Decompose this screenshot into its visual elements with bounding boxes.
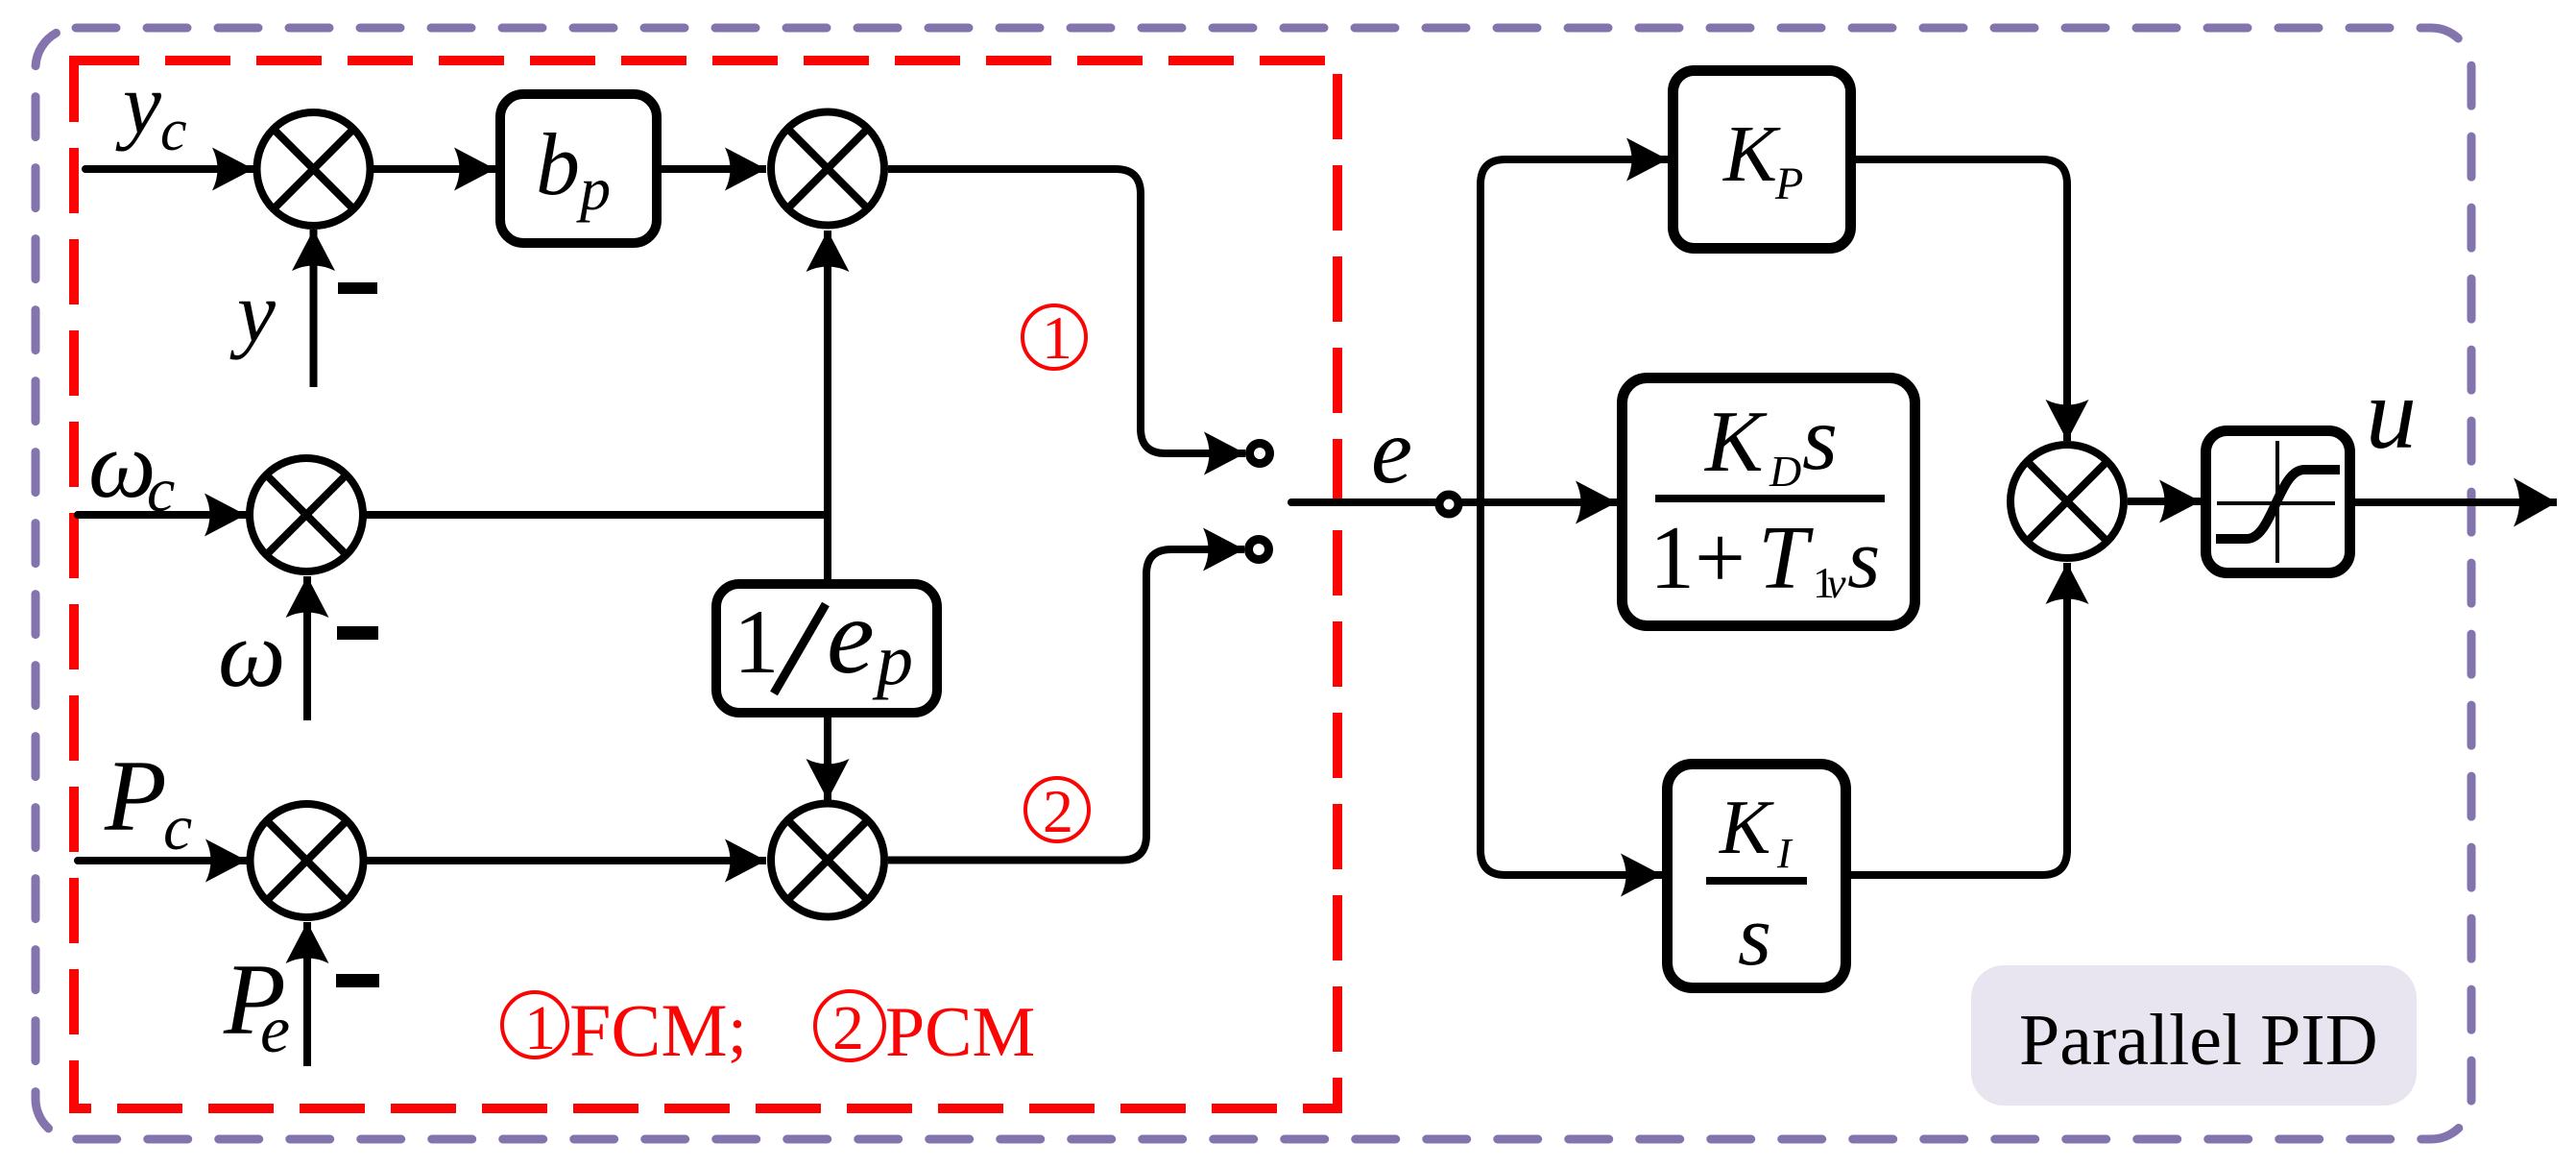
svg-text:K: K — [1703, 393, 1768, 490]
switch common wire to e node and KD — [1291, 498, 1617, 506]
Pe feedback arrow — [303, 922, 311, 1066]
w feedback arrow — [303, 576, 311, 720]
saturation curve — [2216, 470, 2340, 539]
summing junction S6 — [2010, 445, 2124, 558]
svg-text:PCM: PCM — [885, 993, 1035, 1072]
wire S2 to junction — [363, 511, 828, 519]
fraction bar KD — [1655, 495, 1885, 502]
svg-text:s: s — [1802, 387, 1838, 489]
contact circle 2 — [1249, 540, 1269, 560]
saturation axes — [2275, 441, 2279, 563]
wire yc input — [85, 165, 253, 173]
wire S3 to S5 — [364, 857, 767, 864]
y feedback arrow — [310, 230, 318, 387]
svg-text:1: 1 — [734, 591, 780, 693]
svg-text:;: ; — [728, 991, 747, 1068]
summing junction S4 — [771, 112, 884, 226]
svg-text:e: e — [1371, 400, 1412, 502]
svg-text:I: I — [1776, 830, 1794, 877]
svg-text:1: 1 — [524, 993, 556, 1063]
svg-text:T: T — [1758, 508, 1814, 608]
output wire u — [2355, 498, 2557, 506]
svg-text:1+: 1+ — [1649, 508, 1745, 608]
wire S6 to saturation — [2128, 498, 2201, 505]
minus sign S2 — [337, 626, 378, 640]
wire S4 to contact 1 — [888, 169, 1245, 453]
svg-text:y: y — [115, 57, 161, 152]
svg-text:ω: ω — [218, 600, 286, 707]
wire 1/ep to S5 — [824, 717, 831, 800]
wire KI to S6 — [1851, 563, 2067, 875]
block KP — [1673, 71, 1851, 249]
summing junction S5 — [771, 804, 884, 917]
svg-text:1: 1 — [1042, 304, 1072, 372]
block 1/ep — [716, 584, 937, 713]
svg-text:FCM: FCM — [569, 988, 728, 1072]
minus sign S1 — [338, 282, 377, 294]
node circle e — [1439, 495, 1458, 514]
saturation block — [2206, 431, 2350, 573]
summing junction S3 — [251, 804, 364, 917]
fraction bar KI — [1706, 877, 1807, 885]
svg-text:y: y — [229, 265, 276, 360]
svg-text:P: P — [1774, 158, 1803, 209]
wire S5 to contact 2 — [888, 549, 1244, 861]
wire KP to S6 — [1856, 159, 2067, 441]
wire S1 to bp — [371, 165, 496, 173]
svg-text:s: s — [1738, 888, 1771, 984]
wire Pc input — [78, 857, 247, 864]
svg-text:2: 2 — [832, 993, 864, 1063]
svg-text:K: K — [1719, 786, 1774, 870]
Parallel PID label box — [1971, 965, 2417, 1106]
label circled 2 — [1025, 778, 1089, 841]
svg-text:e: e — [827, 577, 875, 696]
svg-text:c: c — [147, 455, 175, 525]
block bp — [500, 94, 657, 243]
svg-text:2: 2 — [1043, 777, 1073, 845]
wire wc input — [78, 511, 246, 519]
block KD — [1623, 378, 1915, 626]
svg-text:c: c — [163, 790, 192, 863]
branch vertical up to KP — [1481, 159, 1668, 502]
red dashed border (FCM/PCM region) — [74, 61, 1337, 1108]
svg-text:D: D — [1769, 447, 1801, 496]
contact circle 1 — [1250, 444, 1270, 464]
svg-text:s: s — [1847, 513, 1880, 606]
svg-text:e: e — [260, 993, 290, 1067]
svg-text:K: K — [1722, 109, 1781, 199]
svg-text:u: u — [2366, 357, 2417, 470]
wire bp to S4 — [662, 165, 766, 173]
minus sign S3 — [336, 974, 379, 987]
svg-text:Parallel PID: Parallel PID — [2019, 1000, 2378, 1081]
svg-text:P: P — [104, 740, 167, 852]
red legend text — [502, 988, 1035, 1072]
block KI — [1668, 765, 1846, 988]
summing junction S1 — [257, 112, 371, 226]
label circled 1 — [1023, 305, 1086, 369]
wire junction down into 1/ep — [824, 515, 831, 579]
wire junction up to S4 — [824, 231, 831, 515]
svg-text:p: p — [872, 620, 913, 700]
branch vertical down to KI — [1481, 502, 1662, 875]
svg-text:c: c — [160, 98, 187, 163]
summing junction S2 — [250, 458, 363, 571]
svg-text:v: v — [1827, 560, 1846, 607]
